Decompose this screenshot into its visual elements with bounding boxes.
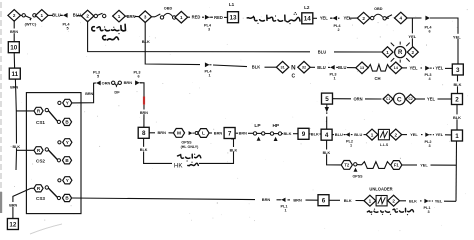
svg-text:BRN: BRN: [293, 197, 302, 202]
terminal block 4: [321, 129, 332, 140]
svg-text:YEL: YEL: [427, 97, 435, 102]
persian label: control circuit supply: [247, 12, 300, 24]
svg-text:BLK: BLK: [252, 65, 260, 70]
svg-text:Y: Y: [66, 101, 69, 106]
wire L to terminal 7: [209, 132, 212, 134]
liquid line solenoid LLS coil: [378, 129, 389, 139]
label BLK on bracket left: [140, 147, 147, 152]
wire LP to HP: [265, 133, 270, 135]
svg-text:2: 2: [392, 198, 395, 203]
svg-text:14: 14: [304, 16, 312, 23]
svg-text:BLK: BLK: [142, 39, 150, 44]
svg-text:OBD: OBD: [374, 7, 383, 11]
svg-text:BLK: BLK: [453, 115, 461, 120]
label BRN above terminal 12: [10, 202, 17, 207]
terminal block 6: [318, 195, 329, 206]
terminal block 7: [224, 128, 235, 139]
wire terminal 4 down to T2: [327, 140, 342, 165]
connector terminal 3: [139, 11, 152, 23]
svg-text:12: 12: [9, 221, 17, 228]
svg-text:2: 2: [395, 132, 398, 137]
selector switch enclosure box: [26, 93, 81, 214]
svg-text:C2: C2: [409, 97, 413, 101]
svg-text:11: 11: [11, 71, 18, 78]
svg-text:OPSS: OPSS: [353, 174, 364, 178]
selector CS1 pivot contact: [45, 108, 48, 111]
svg-text:DF: DF: [114, 90, 120, 95]
svg-text:Y: Y: [66, 140, 69, 145]
svg-text:BRN: BRN: [124, 80, 133, 85]
svg-text:BRN: BRN: [239, 132, 247, 136]
svg-text:OBD: OBD: [164, 6, 173, 10]
OPSS contact circle: [195, 132, 198, 135]
selector CS1 blade: [48, 111, 57, 122]
svg-text:1: 1: [371, 132, 374, 137]
connector terminal 1: [175, 11, 188, 23]
terminal block 11: [9, 68, 20, 79]
svg-text:32: 32: [302, 66, 306, 70]
wire terminal 12 up to CS3: [13, 188, 31, 218]
plug PL3-5 connector arrow: [94, 81, 101, 86]
contactor coil C: [394, 93, 406, 105]
svg-text:6: 6: [137, 75, 139, 79]
svg-text:BLU: BLU: [318, 49, 326, 54]
plug PL4-1 connector arrow: [205, 62, 212, 67]
selector CS1 B terminal: [62, 118, 71, 125]
label BLK on bracket right: [230, 147, 237, 152]
switch contacts: [94, 13, 106, 18]
unloader solenoid coil: [376, 196, 387, 206]
terminal block 13 (L1): [228, 12, 239, 23]
svg-text:9: 9: [302, 131, 306, 138]
svg-text:3: 3: [208, 28, 210, 32]
connector arrow below terminal 5: [325, 104, 329, 114]
crankcase heater CH terminal 14: [390, 62, 402, 74]
svg-text:CS1: CS1: [36, 120, 45, 125]
svg-text:C: C: [291, 74, 295, 80]
svg-text:1: 1: [118, 14, 121, 19]
high pressure switch HP: [270, 132, 281, 141]
svg-text:BLK: BLK: [140, 148, 148, 152]
persian label: on-off switch line2: [103, 36, 119, 40]
svg-text:3: 3: [144, 14, 147, 19]
label BRN under terminal 11: [11, 84, 18, 89]
selector CS1 R terminal: [34, 107, 43, 114]
wire DF down to terminal 8: [140, 83, 144, 97]
OPSS triangle: [354, 168, 358, 172]
svg-text:2: 2: [13, 13, 16, 18]
svg-text:6: 6: [428, 30, 430, 34]
selector CS2 Y contact: [58, 141, 61, 144]
svg-text:BRN: BRN: [10, 30, 18, 34]
low pressure switch LP: [253, 132, 265, 141]
plug PL1-3 connector arrow: [424, 199, 430, 203]
wire CS1 Y to defrost DF: [72, 83, 95, 103]
liquid line solenoid terminal 2: [390, 129, 402, 140]
svg-text:CH: CH: [374, 76, 380, 81]
svg-text:YEL: YEL: [408, 34, 416, 39]
svg-text:7: 7: [228, 130, 232, 137]
label BLK: [453, 114, 460, 119]
svg-text:N: N: [291, 64, 296, 71]
heater resistor element: [357, 164, 362, 166]
svg-text:R: R: [398, 50, 403, 56]
svg-text:T2: T2: [344, 162, 350, 167]
label BRN above terminal 8: [141, 110, 148, 115]
wire color YEL: [453, 34, 460, 39]
svg-text:YEL: YEL: [410, 132, 418, 137]
svg-text:BLU: BLU: [354, 132, 362, 137]
wire top-left chain: [21, 14, 23, 16]
label OPSS (HL ONLY): [181, 141, 200, 150]
svg-text:BRN: BRN: [85, 92, 93, 96]
svg-text:Y: Y: [66, 178, 69, 183]
svg-text:YEL: YEL: [410, 66, 418, 71]
persian label: on-off switch line1: [92, 24, 126, 34]
OPSS switch M terminal: [173, 129, 184, 138]
red pen mark on wire: [143, 97, 145, 105]
svg-text:13: 13: [229, 15, 237, 22]
svg-text:BLU: BLU: [52, 13, 60, 18]
svg-text:BLK: BLK: [409, 198, 417, 203]
selector CS3 B terminal: [62, 194, 71, 201]
svg-text:RED: RED: [214, 15, 223, 20]
label BRN: [86, 91, 93, 96]
svg-text:YEL: YEL: [453, 34, 461, 39]
svg-text:BRN: BRN: [140, 111, 148, 115]
selector CS3 R terminal wire: [31, 187, 34, 189]
wire L2 to OBD chain: [313, 17, 317, 19]
svg-text:YEL: YEL: [436, 132, 444, 137]
svg-text:CS3: CS3: [36, 196, 45, 201]
selector CS2 B contact: [57, 159, 60, 162]
label BRN: [11, 29, 18, 34]
wire terminal 5 arrow down to terminal 4: [326, 117, 328, 130]
selector CS2 blade: [48, 150, 57, 160]
plug PL4-3 connector arrow: [205, 15, 212, 20]
svg-text:YEL: YEL: [435, 66, 443, 71]
svg-text:L2: L2: [304, 5, 310, 10]
svg-text:3: 3: [456, 67, 460, 74]
wire terminal 5 to contactor coil C: [332, 98, 351, 100]
liquid line solenoid terminal 1: [366, 129, 378, 140]
svg-text:1: 1: [284, 209, 286, 213]
svg-text:5: 5: [325, 96, 329, 103]
wire to right edge then down to terminal 3: [431, 18, 459, 64]
svg-text:1: 1: [333, 77, 335, 81]
svg-text:BLK: BLK: [230, 148, 238, 152]
wire F1 to right column: [402, 164, 417, 166]
svg-text:BLU: BLU: [317, 65, 325, 70]
terminal block 12: [7, 219, 18, 230]
BLK wire terminal 3 to terminal 2: [457, 75, 459, 94]
svg-text:LP: LP: [254, 123, 261, 129]
selector CS1 B contact: [57, 120, 60, 123]
label BLK: [13, 144, 20, 149]
wire terminal 1 down to unloader row: [455, 141, 458, 201]
wire to PL3-1: [310, 66, 315, 68]
svg-text:BRN: BRN: [10, 85, 18, 89]
connector terminal 2: [357, 12, 370, 24]
persian label: only for model HK line1: [177, 154, 200, 162]
heater terminal T2: [341, 161, 352, 170]
contactor coil C terminal C2: [406, 94, 416, 103]
svg-text:HK: HK: [174, 162, 183, 169]
svg-text:YEL: YEL: [320, 16, 328, 21]
wire from terminal 4 to PL4-6 and down to R relay: [407, 17, 421, 19]
OPSS connector arrow: [189, 131, 195, 135]
selector CS3 Y terminal: [63, 177, 72, 184]
plug PL4-2 connector arrow: [331, 16, 338, 21]
svg-text:13: 13: [360, 66, 364, 70]
svg-text:1: 1: [180, 15, 183, 20]
wire terminal 10 to terminal 11: [13, 53, 15, 68]
terminal block 2: [452, 94, 463, 105]
unloader solenoid terminal 1: [364, 195, 376, 206]
svg-text:YEL: YEL: [420, 163, 428, 168]
plug PL1-1 connector arrow: [279, 198, 285, 202]
wire LLS to PL2-3: [402, 134, 407, 136]
wire terminal 9 to terminal 4: [309, 133, 310, 135]
wire terminal 7 to LP switch: [236, 132, 238, 134]
svg-text:5: 5: [66, 27, 68, 31]
svg-text:BLU: BLU: [335, 132, 343, 137]
crankcase heater CH terminal 13: [356, 62, 368, 74]
svg-text:L.L.S: L.L.S: [380, 143, 389, 147]
svg-text:2: 2: [455, 96, 459, 103]
svg-text:CS2: CS2: [36, 158, 45, 163]
plug PL2-1 connector arrow: [344, 132, 350, 136]
svg-text:L1: L1: [229, 2, 235, 7]
wire unloader to PL1-3: [400, 200, 407, 202]
plug PL4-6 connector arrow: [425, 16, 432, 21]
wire WTC terminal down to terminal 10: [13, 20, 15, 41]
selector CS3 R terminal: [34, 185, 43, 192]
persian label: unloader solenoid valve: [367, 208, 413, 215]
svg-text:HP: HP: [272, 123, 279, 129]
connector terminal 1: [113, 10, 126, 22]
svg-text:M: M: [177, 131, 181, 137]
svg-text:1: 1: [369, 198, 372, 203]
svg-text:C: C: [397, 96, 402, 103]
svg-text:3: 3: [428, 144, 430, 148]
svg-text:L: L: [202, 131, 205, 137]
wire CS3 B terminal across bottom: [72, 198, 255, 200]
terminal block 3: [452, 64, 463, 75]
svg-text:UNLOADER: UNLOADER: [369, 187, 392, 192]
svg-text:8: 8: [142, 130, 146, 137]
terminal block 5: [322, 93, 333, 104]
svg-text:1: 1: [350, 144, 352, 148]
svg-text:BLU: BLU: [338, 65, 346, 70]
svg-text:ORN: ORN: [353, 96, 362, 101]
svg-text:31: 31: [280, 66, 284, 70]
plug PL3-1 connector arrow: [328, 65, 335, 70]
svg-text:YEL: YEL: [344, 16, 352, 21]
terminal block 8: [138, 127, 149, 138]
svg-text:BLK: BLK: [284, 131, 292, 136]
svg-text:3: 3: [427, 210, 429, 214]
svg-text:2: 2: [86, 14, 89, 19]
terminal block 9: [298, 128, 309, 139]
svg-text:1: 1: [455, 133, 459, 140]
svg-text:RED: RED: [192, 15, 201, 20]
connector terminal 4: [395, 12, 408, 24]
contactor C terminal 31: [276, 61, 288, 73]
relay terminal 1: [382, 47, 393, 58]
connector terminal 2: [81, 10, 94, 22]
wire HP to terminal 9: [282, 133, 283, 135]
heater terminal F1: [391, 161, 402, 170]
svg-text:ORN: ORN: [102, 80, 111, 85]
svg-text:1: 1: [208, 74, 210, 78]
svg-text:5: 5: [97, 75, 99, 79]
wire continues to terminal 8: [143, 105, 145, 128]
svg-text:BRN: BRN: [157, 130, 166, 135]
wire terminal 8 to OPSS M: [149, 132, 155, 134]
wire to PL3-4 and terminal 3: [402, 67, 407, 69]
plug PL4-5 connector arrow: [61, 13, 68, 18]
svg-text:4: 4: [400, 16, 403, 21]
BLK wire terminal 2 to terminal 1: [456, 105, 458, 131]
BLK wire from terminal 3 down and across to compressor contactor C: [145, 22, 200, 65]
svg-text:4: 4: [325, 132, 329, 139]
svg-text:BRN: BRN: [127, 14, 136, 19]
svg-text:2: 2: [337, 28, 339, 32]
wire: [377, 134, 379, 136]
crankcase heater CH resistor: [368, 65, 389, 72]
svg-text:2: 2: [362, 16, 365, 21]
wire C2 to terminal 2: [416, 98, 425, 100]
contactor coil C terminal C1: [383, 94, 393, 103]
svg-text:BLK: BLK: [13, 145, 21, 149]
connector terminal 2 (WTC switch): [8, 10, 21, 22]
selector CS3 Y contact: [58, 179, 61, 182]
wire color BLK: [252, 64, 260, 69]
relay R coil with terminals 1 and 2: [391, 42, 410, 63]
svg-text:10: 10: [10, 45, 18, 52]
plug PL2-3 connector arrow: [425, 133, 431, 137]
svg-text:BRN: BRN: [214, 130, 223, 135]
selector CS1 Y contact: [58, 101, 61, 104]
selector CS1 Y terminal: [63, 99, 72, 106]
svg-text:(WTC): (WTC): [25, 22, 37, 27]
svg-text:2: 2: [412, 50, 415, 55]
unloader solenoid terminal 2: [388, 195, 400, 206]
svg-text:BLK: BLK: [311, 131, 319, 136]
svg-text:BRN: BRN: [9, 203, 17, 207]
terminal block 14 (L2): [302, 13, 313, 24]
OPSS switch L terminal: [198, 129, 209, 138]
label BLK: [323, 150, 330, 155]
wire color YEL (vertical to relay): [409, 33, 416, 38]
selector CS2 B terminal: [62, 157, 71, 164]
connector terminal 1: [36, 10, 49, 22]
selector CS3 blade: [48, 188, 57, 197]
svg-text:1: 1: [41, 13, 44, 18]
relay terminal 2: [407, 47, 418, 58]
wire color BLU on bus: [318, 49, 326, 54]
contactor C terminal 32: [298, 61, 310, 73]
wire terminal 4 to PL2-1: [332, 134, 334, 136]
svg-text:BLK: BLK: [323, 151, 331, 155]
persian label: only for model HK line2 with HK: [174, 162, 198, 170]
svg-text:BLK: BLK: [454, 82, 462, 87]
wire color BRN: [262, 197, 269, 202]
svg-text:F1: F1: [394, 163, 400, 168]
selector CS2 pivot contact: [45, 148, 48, 151]
plug PL3-6 connector arrow: [135, 80, 142, 85]
wire terminal 11 down to selector switch commons: [15, 79, 16, 170]
svg-text:1: 1: [386, 50, 389, 55]
plug PL3-4 connector arrow: [425, 66, 432, 71]
terminal block 1: [452, 130, 463, 141]
svg-text:BLK: BLK: [344, 198, 352, 203]
selector CS2 Y terminal: [63, 139, 72, 146]
selector CS3 B contact: [57, 196, 60, 199]
svg-text:(HL ONLY): (HL ONLY): [181, 145, 200, 149]
defrost control DF contacts: [112, 81, 122, 87]
label BLK: [454, 81, 461, 86]
terminal block 10: [8, 42, 19, 53]
selector CS1 R terminal wire: [16, 110, 34, 112]
svg-text:6: 6: [322, 198, 326, 205]
svg-text:BLU: BLU: [73, 13, 81, 18]
BLU bus wire from WTC terminal down and across to relay: [88, 21, 310, 52]
selector CS2 R terminal: [34, 147, 43, 154]
svg-text:BRN: BRN: [262, 197, 271, 202]
svg-text:YEL: YEL: [435, 199, 443, 204]
WTC thermostat switch: [22, 14, 36, 21]
svg-text:C1: C1: [386, 97, 390, 101]
OBD switch with arc: [371, 14, 393, 20]
OBD switch with arc: [155, 13, 176, 19]
HK-model bracket wire terminal 8 to terminal 7: [144, 138, 172, 163]
OPSS contact: [354, 163, 357, 166]
svg-text:OPSS: OPSS: [181, 141, 192, 145]
selector CS3 pivot contact: [45, 186, 48, 189]
selector CS2 R terminal wire: [16, 149, 34, 151]
